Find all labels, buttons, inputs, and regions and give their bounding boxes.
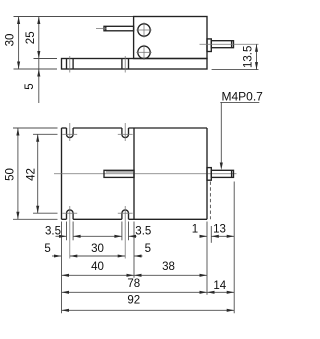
svg-text:92: 92 <box>127 294 140 306</box>
svg-text:30: 30 <box>5 34 17 47</box>
svg-text:5: 5 <box>44 243 50 255</box>
svg-text:3.5: 3.5 <box>45 226 61 238</box>
svg-text:14: 14 <box>213 280 226 292</box>
svg-text:78: 78 <box>127 278 140 290</box>
svg-text:40: 40 <box>91 261 104 273</box>
svg-text:13: 13 <box>213 223 226 235</box>
svg-text:42: 42 <box>26 168 38 181</box>
svg-text:13.5: 13.5 <box>243 46 255 68</box>
svg-text:50: 50 <box>5 168 17 181</box>
svg-text:5: 5 <box>24 83 36 89</box>
svg-text:1: 1 <box>192 223 198 235</box>
svg-text:38: 38 <box>162 261 175 273</box>
svg-text:25: 25 <box>25 31 37 44</box>
svg-text:3.5: 3.5 <box>135 226 151 238</box>
svg-text:M4P0.7: M4P0.7 <box>222 89 264 103</box>
svg-text:30: 30 <box>91 243 104 255</box>
svg-text:5: 5 <box>145 243 151 255</box>
